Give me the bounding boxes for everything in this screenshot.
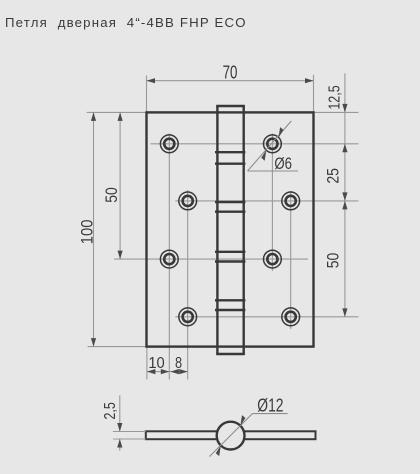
- centerline row2: [175, 200, 358, 202]
- centerline col2: [187, 190, 189, 380]
- diameter 12 arrow lower: [216, 445, 221, 456]
- arrow 50 top: [342, 201, 347, 210]
- screw hole row3 col3: [264, 250, 282, 268]
- dimension line 10-8: [147, 371, 188, 373]
- centerline col1: [168, 134, 170, 380]
- extension line 70 right: [313, 75, 315, 113]
- svg-text:Ø6: Ø6: [274, 155, 292, 174]
- thickness arrow top: [117, 423, 122, 432]
- knuckle strip right wall: [242, 106, 244, 354]
- arrow 25 bottom: [342, 192, 347, 201]
- centerline row4: [175, 316, 358, 318]
- hinge leaf plate outline: [147, 112, 314, 346]
- dimension line 70: [147, 80, 314, 82]
- diameter 12 leader line: [209, 414, 252, 457]
- screw hole row4 col2: [179, 308, 197, 326]
- screw hole row2 col4: [282, 192, 300, 210]
- knuckle band 3: [215, 252, 245, 262]
- dimension line 100: [93, 112, 95, 346]
- thickness dim line upper: [119, 395, 121, 431]
- svg-text:100: 100: [79, 219, 97, 244]
- diameter 12 arrow upper: [240, 415, 245, 426]
- extension line bottom corner: [146, 347, 148, 380]
- diameter 6 shelf: [248, 170, 299, 172]
- knuckle band 4: [215, 300, 245, 310]
- screw hole row3 col1: [160, 250, 178, 268]
- arrow 50L bottom: [118, 251, 123, 260]
- knuckle strip left wall: [216, 106, 218, 354]
- thickness dim line lower: [119, 439, 121, 451]
- svg-text:25: 25: [325, 168, 343, 184]
- diameter 6 leader line: [248, 121, 292, 171]
- screw hole row4 col4: [282, 308, 300, 326]
- svg-text:2,5: 2,5: [102, 402, 120, 419]
- side view bar: [146, 431, 316, 439]
- diameter 6 arrow upper: [279, 127, 284, 138]
- arrow 100 top: [91, 112, 96, 121]
- diameter 6 arrow lower: [261, 150, 266, 161]
- screw hole row2 col2: [179, 192, 197, 210]
- extension line 70 left: [146, 76, 148, 113]
- thickness extension bottom: [113, 438, 146, 440]
- arrow 25 top: [342, 144, 347, 153]
- arrow 50L top: [118, 112, 123, 121]
- knuckle top cap: [216, 105, 245, 107]
- thickness arrow bottom: [117, 439, 122, 448]
- arrow 10 right: [161, 369, 170, 374]
- centerline row3: [114, 258, 308, 260]
- arrow 50 bottom: [342, 308, 347, 317]
- dimension line 50 left: [119, 112, 121, 259]
- screw hole row1 col3: [264, 135, 282, 153]
- svg-text:8: 8: [175, 355, 182, 373]
- diameter 12 shelf: [252, 413, 287, 415]
- knuckle band 2: [215, 202, 245, 212]
- extension line top-right: [314, 111, 359, 113]
- screw hole row1 col1: [160, 135, 178, 153]
- knuckle band 1: [215, 152, 245, 164]
- svg-text:70: 70: [223, 62, 238, 83]
- side view barrel circle: [217, 422, 245, 450]
- arrow 8 right: [179, 369, 188, 374]
- svg-text:50: 50: [325, 253, 343, 269]
- arrow 70 right: [305, 78, 314, 83]
- svg-text:10: 10: [148, 354, 164, 372]
- arrow 10 left: [147, 369, 156, 374]
- extension line top-left: [87, 111, 147, 113]
- centerline row1: [151, 143, 359, 145]
- svg-text:12,5: 12,5: [326, 85, 344, 109]
- arrow 100 bottom: [91, 338, 96, 347]
- dimension line right chain: [344, 73, 346, 317]
- arrow 70 left: [147, 78, 156, 83]
- svg-text:50: 50: [103, 187, 121, 203]
- svg-text:Петля дверная 4“-4BB FHP ECO: Петля дверная 4“-4BB FHP ECO: [5, 15, 247, 30]
- thickness extension top: [113, 431, 146, 433]
- centerline col3: [271, 134, 273, 271]
- svg-text:Ø12: Ø12: [257, 395, 283, 415]
- arrow 12.5 top: [342, 104, 347, 113]
- centerline col4: [290, 191, 292, 329]
- extension line bottom-left: [88, 346, 147, 348]
- arrow 8 left: [170, 369, 179, 374]
- knuckle bottom cap: [216, 353, 245, 355]
